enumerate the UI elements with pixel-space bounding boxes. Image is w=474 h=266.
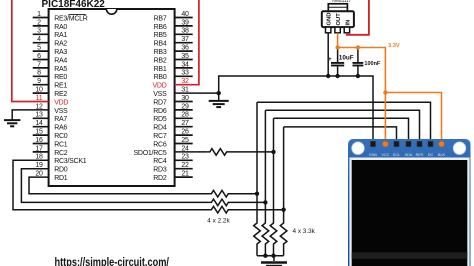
svg-text:RD5: RD5 xyxy=(153,116,167,123)
svg-text:DC: DC xyxy=(428,153,434,157)
svg-text:RB1: RB1 xyxy=(154,66,167,73)
svg-text:RE3/MCLR: RE3/MCLR xyxy=(54,15,88,22)
svg-text:17: 17 xyxy=(35,145,43,152)
svg-text:RB3: RB3 xyxy=(154,49,167,56)
svg-text:RD1: RD1 xyxy=(54,175,68,182)
svg-text:VCC: VCC xyxy=(381,153,389,157)
svg-text:29: 29 xyxy=(181,103,189,110)
svg-text:RD7: RD7 xyxy=(153,99,167,106)
svg-text:RC3/SCK1: RC3/SCK1 xyxy=(54,158,87,165)
svg-text:8: 8 xyxy=(37,70,41,77)
svg-text:4 x 3.3k: 4 x 3.3k xyxy=(293,228,316,235)
svg-text:PIC18F46K22: PIC18F46K22 xyxy=(42,0,106,10)
svg-text:14: 14 xyxy=(35,120,43,127)
svg-text:VDD: VDD xyxy=(152,83,166,90)
svg-text:RC0: RC0 xyxy=(54,133,68,140)
svg-text:30: 30 xyxy=(181,95,189,102)
svg-text:RB2: RB2 xyxy=(154,57,167,64)
svg-text:3.3V: 3.3V xyxy=(388,43,400,49)
svg-text:RES: RES xyxy=(416,153,424,157)
svg-text:GND: GND xyxy=(369,153,378,157)
svg-text:BLK: BLK xyxy=(438,153,446,157)
svg-text:VSS: VSS xyxy=(153,91,167,98)
svg-text:27: 27 xyxy=(181,120,189,127)
svg-text:2: 2 xyxy=(37,19,41,26)
svg-text:VDD: VDD xyxy=(54,99,68,106)
svg-text:RC6: RC6 xyxy=(153,141,167,148)
svg-text:RA5: RA5 xyxy=(54,66,67,73)
svg-text:RE1: RE1 xyxy=(54,83,67,90)
svg-text:RA1: RA1 xyxy=(54,32,67,39)
svg-text:4: 4 xyxy=(37,36,41,43)
svg-text:16: 16 xyxy=(35,137,43,144)
svg-text:RA7: RA7 xyxy=(54,116,67,123)
svg-text:OUT: OUT xyxy=(336,13,342,26)
svg-text:22: 22 xyxy=(181,162,189,169)
svg-text:100nF: 100nF xyxy=(364,61,381,67)
svg-text:21: 21 xyxy=(181,171,189,178)
svg-text:RB6: RB6 xyxy=(154,24,167,31)
svg-text:RA4: RA4 xyxy=(54,57,67,64)
svg-text:RA2: RA2 xyxy=(54,41,67,48)
svg-text:4 x 2.2k: 4 x 2.2k xyxy=(207,217,230,224)
svg-text:SCL: SCL xyxy=(393,153,400,157)
svg-text:RB4: RB4 xyxy=(154,41,167,48)
svg-text:RD2: RD2 xyxy=(153,175,167,182)
svg-text:7: 7 xyxy=(37,61,41,68)
svg-text:36: 36 xyxy=(181,45,189,52)
svg-text:GND: GND xyxy=(327,13,333,26)
svg-text:RE0: RE0 xyxy=(54,74,67,81)
svg-text:35: 35 xyxy=(181,53,189,60)
svg-text:38: 38 xyxy=(181,28,189,35)
svg-text:15: 15 xyxy=(35,129,43,136)
svg-text:34: 34 xyxy=(181,61,189,68)
svg-text:5: 5 xyxy=(37,45,41,52)
svg-text:+: + xyxy=(328,56,332,63)
svg-text:IN: IN xyxy=(345,20,351,26)
svg-text:VSS: VSS xyxy=(54,108,68,115)
svg-text:RB0: RB0 xyxy=(154,74,167,81)
svg-text:RD0: RD0 xyxy=(54,167,68,174)
svg-text:RB7: RB7 xyxy=(154,15,167,22)
svg-text:https://simple-circuit.com/: https://simple-circuit.com/ xyxy=(55,257,170,266)
svg-text:RC2: RC2 xyxy=(54,150,68,157)
svg-text:33: 33 xyxy=(181,70,189,77)
svg-text:RD6: RD6 xyxy=(153,108,167,115)
svg-text:RA3: RA3 xyxy=(54,49,67,56)
svg-text:13: 13 xyxy=(35,112,43,119)
svg-text:RC7: RC7 xyxy=(153,133,167,140)
svg-text:1: 1 xyxy=(37,11,41,18)
svg-text:RA0: RA0 xyxy=(54,24,67,31)
svg-text:RA6: RA6 xyxy=(54,125,67,132)
svg-text:RD3: RD3 xyxy=(153,167,167,174)
svg-text:10uF: 10uF xyxy=(339,54,354,61)
svg-text:26: 26 xyxy=(181,129,189,136)
svg-text:AMS1117: AMS1117 xyxy=(332,0,352,3)
svg-text:RB5: RB5 xyxy=(154,32,167,39)
svg-text:6: 6 xyxy=(37,53,41,60)
svg-text:37: 37 xyxy=(181,36,189,43)
svg-text:RD4: RD4 xyxy=(153,125,167,132)
svg-text:RC1: RC1 xyxy=(54,141,68,148)
svg-text:10: 10 xyxy=(35,87,43,94)
svg-text:SDA: SDA xyxy=(405,153,413,157)
svg-text:28: 28 xyxy=(181,112,189,119)
svg-text:RC4: RC4 xyxy=(153,158,167,165)
svg-text:RE2: RE2 xyxy=(54,91,67,98)
svg-text:3: 3 xyxy=(37,28,41,35)
svg-text:SDO1/RC5: SDO1/RC5 xyxy=(133,150,166,157)
svg-text:9: 9 xyxy=(37,78,41,85)
svg-text:40: 40 xyxy=(181,11,189,18)
svg-text:23: 23 xyxy=(181,154,189,161)
svg-text:25: 25 xyxy=(181,137,189,144)
svg-text:39: 39 xyxy=(181,19,189,26)
